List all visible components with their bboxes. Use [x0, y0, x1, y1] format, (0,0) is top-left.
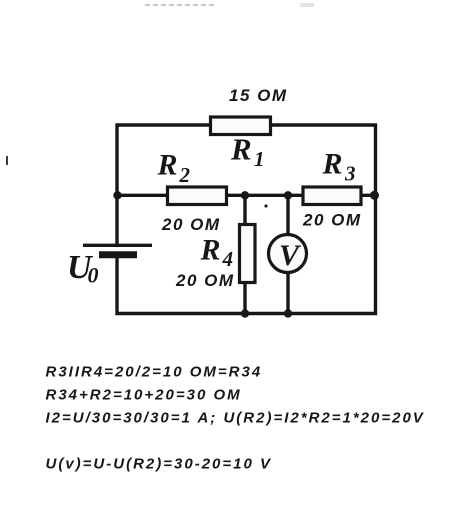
svg-text:15 OM: 15 OM — [229, 86, 288, 105]
node R4 bottom junction — [241, 309, 249, 317]
svg-text:R: R — [200, 234, 221, 267]
label R4 — [200, 234, 234, 272]
node R4 top junction — [241, 191, 249, 199]
label U0 — [67, 249, 99, 288]
svg-text:20 OM: 20 OM — [161, 215, 221, 234]
value 20 OM (R2) — [161, 215, 221, 234]
wire right — [374, 124, 377, 316]
svg-text:R: R — [322, 148, 343, 181]
battery U0 plate short thick — [99, 251, 137, 258]
svg-text:2: 2 — [179, 163, 191, 187]
value 20 OM (R4) — [175, 271, 235, 290]
formula line 3 — [46, 410, 425, 427]
node voltmeter top junction — [284, 191, 292, 199]
node voltmeter bottom junction — [284, 309, 292, 317]
label R2 — [157, 149, 191, 188]
resistor R1 — [211, 117, 271, 135]
node right-middle junction — [370, 191, 379, 200]
wire top — [116, 123, 378, 126]
node left-middle junction — [113, 191, 121, 199]
value 20 OM (R3) — [302, 211, 362, 230]
wire R4 branch — [243, 195, 246, 313]
svg-text:R34+R2=10+20=30 OM: R34+R2=10+20=30 OM — [46, 387, 242, 404]
svg-text:U(v)=U-U(R2)=30-20=10 V: U(v)=U-U(R2)=30-20=10 V — [46, 456, 273, 473]
svg-text:20 OM: 20 OM — [302, 211, 362, 230]
svg-text:V: V — [279, 239, 302, 272]
wire left — [115, 124, 118, 316]
svg-text:3: 3 — [344, 162, 356, 186]
svg-text:4: 4 — [222, 247, 234, 271]
resistor R4 — [240, 225, 256, 283]
faint dashed artifact top — [145, 3, 314, 7]
formula line 1 — [46, 364, 263, 381]
stray dot near R2 wire — [264, 204, 267, 207]
svg-text:0: 0 — [88, 263, 99, 288]
wire voltmeter branch — [286, 195, 289, 313]
stray mark left edge — [6, 156, 8, 165]
value 15 OM — [229, 86, 288, 105]
svg-text:I2=U/30=30/30=1 A; U(R2)=I2*R2: I2=U/30=30/30=1 A; U(R2)=I2*R2=1*20=20V — [46, 410, 425, 427]
wire bottom — [116, 312, 378, 316]
svg-text:1: 1 — [254, 147, 265, 171]
label R3 — [322, 148, 356, 186]
svg-text:R3IIR4=20/2=10 OM=R34: R3IIR4=20/2=10 OM=R34 — [46, 364, 263, 381]
svg-text:R: R — [157, 149, 178, 182]
svg-text:20 OM: 20 OM — [175, 271, 235, 290]
resistor R2 — [168, 187, 227, 205]
voltmeter V — [269, 235, 307, 273]
battery U0 plate long — [83, 244, 152, 247]
label R1 — [230, 132, 265, 172]
svg-text:R: R — [230, 132, 252, 167]
formula line 2 — [46, 387, 242, 404]
formula line 4 — [46, 456, 273, 473]
resistor R3 — [303, 187, 361, 205]
wire middle horizontal — [117, 194, 376, 197]
